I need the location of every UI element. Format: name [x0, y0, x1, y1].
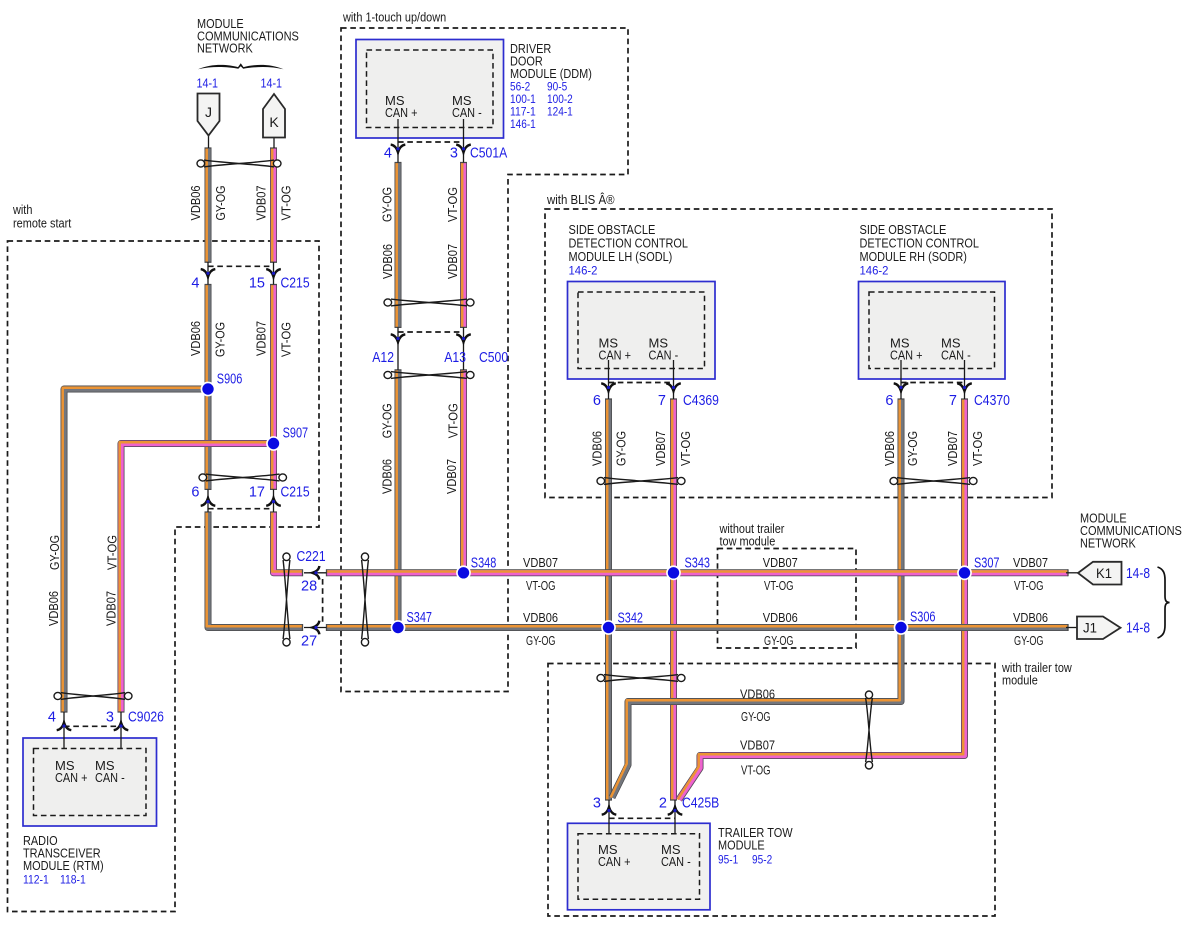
svg-text:146-2: 146-2	[860, 264, 889, 278]
twisted pair trailer runs	[865, 691, 872, 769]
svg-text:VDB06: VDB06	[523, 610, 558, 625]
module TTM box	[568, 823, 711, 910]
twisted pair above C215 6/17	[199, 474, 287, 481]
twisted pair SODR	[890, 477, 977, 484]
wire VDB07 VT-OG from SODR pin 7 to S307	[963, 399, 964, 573]
svg-text:VDB06: VDB06	[882, 431, 897, 466]
svg-text:6: 6	[885, 393, 893, 409]
svg-text:J: J	[205, 104, 212, 120]
twisted pair DDM upper	[384, 299, 474, 306]
option box: with remote start	[8, 241, 320, 912]
svg-text:95-1: 95-1	[718, 853, 738, 867]
inline connector C500 pins A12/A13	[398, 327, 464, 370]
svg-text:VDB07: VDB07	[763, 555, 798, 570]
wire end caps	[61, 148, 1069, 800]
svg-text:3: 3	[450, 146, 458, 162]
svg-text:C215: C215	[281, 275, 310, 291]
svg-text:17: 17	[249, 485, 265, 501]
option box: with BLIS	[545, 209, 1052, 498]
connector J1	[1066, 627, 1080, 629]
svg-text:VDB06: VDB06	[188, 321, 203, 356]
svg-text:124-1: 124-1	[547, 105, 573, 119]
inline connector C501A pins 4/3	[398, 119, 464, 163]
inline connector C425B pins 3/2	[609, 800, 675, 834]
wire VDB06 GY-OG branch S906 to RTM pin 4	[63, 388, 208, 712]
svg-text:A12: A12	[372, 350, 394, 366]
svg-text:S343: S343	[685, 556, 711, 572]
option box: with 1-touch up/down	[341, 28, 628, 692]
svg-text:VDB07: VDB07	[945, 431, 960, 466]
svg-text:VT-OG: VT-OG	[678, 431, 693, 466]
wire VDB06 GY-OG from SODR pin 6 to S306	[900, 399, 901, 628]
svg-text:VDB06: VDB06	[1013, 610, 1048, 625]
svg-text:VT-OG: VT-OG	[445, 187, 460, 222]
svg-text:VT-OG: VT-OG	[526, 578, 556, 593]
splice S307	[957, 556, 999, 581]
svg-text:VDB07: VDB07	[653, 431, 668, 466]
connector J	[208, 136, 210, 149]
svg-text:28: 28	[301, 578, 317, 594]
svg-text:S347: S347	[407, 610, 433, 626]
svg-text:J1: J1	[1083, 620, 1097, 636]
svg-text:MODULE LH (SODL): MODULE LH (SODL)	[569, 249, 673, 264]
svg-text:tow module: tow module	[720, 534, 776, 549]
svg-text:VDB06: VDB06	[740, 687, 775, 702]
svg-text:GY-OG: GY-OG	[741, 709, 771, 724]
svg-text:VT-OG: VT-OG	[104, 535, 119, 570]
inline connector C215 pins 6/17	[208, 489, 274, 512]
svg-text:VDB07: VDB07	[740, 738, 775, 753]
svg-text:MODULE (RTM): MODULE (RTM)	[23, 858, 104, 873]
svg-text:with 1-touch up/down: with 1-touch up/down	[342, 10, 446, 25]
twisted pair above TTM	[597, 674, 685, 681]
bus wire VDB07 VT-OG	[327, 572, 1069, 573]
svg-text:3: 3	[593, 796, 601, 812]
svg-text:S906: S906	[217, 372, 243, 388]
svg-text:CAN -: CAN -	[95, 770, 125, 785]
bus wire VDB06 GY-OG	[327, 626, 1069, 627]
option box: without trailer tow module	[718, 549, 857, 649]
module SODL box	[568, 282, 716, 380]
svg-text:K: K	[269, 114, 279, 130]
option box: with trailer tow module	[548, 664, 995, 917]
wire VDB06 GY-OG from SODL pin 6 through S342 to TTM pin 3	[607, 399, 608, 800]
svg-text:S348: S348	[471, 556, 497, 572]
svg-text:C4370: C4370	[974, 393, 1010, 409]
svg-text:7: 7	[949, 393, 957, 409]
svg-text:VT-OG: VT-OG	[1014, 578, 1044, 593]
svg-text:remote start: remote start	[13, 216, 72, 231]
brace over J/K	[198, 63, 284, 69]
svg-text:with BLIS Â®: with BLIS Â®	[546, 192, 615, 207]
svg-text:C215: C215	[281, 485, 310, 501]
svg-text:CAN -: CAN -	[941, 348, 971, 363]
SODL pins 6/7 connector C4369	[609, 360, 674, 399]
svg-text:GY-OG: GY-OG	[213, 186, 228, 221]
svg-text:GY-OG: GY-OG	[380, 403, 395, 438]
svg-text:S342: S342	[618, 611, 644, 627]
svg-text:15: 15	[249, 275, 265, 291]
twisted pair below J/K	[197, 160, 281, 167]
twisted pair SODL	[597, 477, 685, 484]
svg-text:14-8: 14-8	[1126, 566, 1150, 582]
svg-text:CAN -: CAN -	[452, 105, 482, 120]
svg-text:VDB07: VDB07	[444, 459, 459, 494]
svg-text:3: 3	[106, 710, 114, 726]
SODR pins 6/7 connector C4370	[901, 360, 965, 399]
svg-text:CAN +: CAN +	[890, 348, 923, 363]
svg-text:2: 2	[659, 796, 667, 812]
svg-text:VDB07: VDB07	[445, 244, 460, 279]
svg-text:14-1: 14-1	[261, 76, 283, 91]
svg-text:NETWORK: NETWORK	[1080, 535, 1136, 550]
svg-text:CAN +: CAN +	[385, 105, 418, 120]
svg-text:C501A: C501A	[470, 146, 507, 162]
svg-text:VDB07: VDB07	[523, 555, 558, 570]
connector K1	[1066, 572, 1080, 574]
svg-text:C500: C500	[479, 350, 508, 366]
wire VDB06 GY-OG trailer run S306 to TTM pin 3	[611, 628, 901, 798]
splice S343	[666, 556, 710, 581]
wire VDB07 VT-OG from SODL pin 7 through S343 to TTM pin 2	[672, 399, 673, 800]
svg-text:GY-OG: GY-OG	[613, 431, 628, 466]
svg-text:14-1: 14-1	[197, 76, 219, 91]
svg-text:A13: A13	[444, 350, 466, 366]
svg-text:VT-OG: VT-OG	[279, 186, 294, 221]
svg-text:CAN +: CAN +	[55, 770, 88, 785]
twisted pair C221 right	[361, 553, 368, 646]
svg-text:C4369: C4369	[683, 393, 719, 409]
splice S306	[894, 610, 936, 635]
svg-text:CAN -: CAN -	[661, 854, 691, 869]
twisted pair above RTM	[54, 692, 132, 699]
wire VDB07 VT-OG trailer run S307 to TTM pin 2	[678, 573, 965, 800]
inline connector C215 pins 4/15	[208, 262, 274, 285]
svg-text:S907: S907	[283, 426, 309, 442]
svg-text:VDB06: VDB06	[380, 244, 395, 279]
module RTM box	[23, 738, 157, 826]
svg-text:NETWORK: NETWORK	[197, 41, 253, 56]
svg-text:27: 27	[301, 634, 317, 650]
svg-text:VDB07: VDB07	[253, 186, 268, 221]
svg-text:4: 4	[191, 275, 199, 291]
svg-text:MODULE: MODULE	[718, 838, 765, 853]
svg-text:GY-OG: GY-OG	[764, 633, 794, 648]
svg-text:GY-OG: GY-OG	[213, 322, 228, 357]
splice S347	[391, 610, 432, 635]
svg-text:VDB07: VDB07	[104, 591, 119, 626]
wire VDB07 VT-OG branch S907 to RTM pin 3	[120, 442, 274, 712]
inline connector C221 pins 28/27	[304, 573, 327, 628]
svg-text:MODULE RH (SODR): MODULE RH (SODR)	[860, 249, 967, 264]
svg-text:14-8: 14-8	[1126, 621, 1150, 637]
splice S907	[266, 426, 308, 451]
wire VDB07 VT-OG from K to C221 pin 28	[272, 148, 302, 573]
inline connector C9026 pins 4/3	[64, 712, 121, 749]
svg-text:VDB06: VDB06	[590, 431, 605, 466]
twisted pair C221 left	[283, 553, 290, 646]
svg-text:VDB06: VDB06	[46, 591, 61, 626]
svg-text:VT-OG: VT-OG	[741, 763, 771, 778]
svg-text:C9026: C9026	[128, 710, 164, 726]
svg-text:GY-OG: GY-OG	[47, 535, 62, 570]
svg-text:6: 6	[191, 485, 199, 501]
svg-text:6: 6	[593, 393, 601, 409]
splice S348	[456, 556, 496, 581]
svg-text:GY-OG: GY-OG	[1014, 633, 1044, 648]
svg-text:C425B: C425B	[682, 796, 719, 812]
wire VDB06 GY-OG from DDM pin 4 to S347	[397, 163, 398, 628]
svg-text:CAN +: CAN +	[599, 348, 632, 363]
connector K	[273, 138, 275, 149]
svg-text:7: 7	[658, 393, 666, 409]
module SODR box	[859, 282, 1006, 380]
svg-text:VT-OG: VT-OG	[970, 431, 985, 466]
svg-text:VT-OG: VT-OG	[445, 403, 460, 438]
svg-text:112-1: 112-1	[23, 873, 49, 887]
wire VDB07 VT-OG from DDM pin 3 to S348	[462, 163, 463, 573]
svg-text:VT-OG: VT-OG	[764, 578, 794, 593]
splice S906	[201, 372, 243, 397]
svg-text:95-2: 95-2	[752, 853, 772, 867]
svg-text:4: 4	[384, 146, 392, 162]
svg-text:VDB06: VDB06	[763, 610, 798, 625]
svg-text:146-2: 146-2	[569, 264, 598, 278]
svg-text:118-1: 118-1	[60, 873, 86, 887]
svg-text:S306: S306	[910, 610, 936, 626]
svg-text:module: module	[1002, 673, 1038, 688]
svg-text:C221: C221	[297, 549, 326, 565]
svg-text:146-1: 146-1	[510, 117, 536, 131]
wire VDB06 GY-OG from J to C221 pin 27	[207, 148, 303, 628]
svg-text:VDB06: VDB06	[380, 459, 395, 494]
svg-text:VDB07: VDB07	[1013, 555, 1048, 570]
twisted pair DDM lower	[384, 371, 474, 378]
module DDM box	[356, 40, 504, 139]
svg-text:4: 4	[48, 710, 56, 726]
svg-text:VDB06: VDB06	[188, 186, 203, 221]
brace right of K1/J1	[1158, 567, 1170, 638]
svg-text:CAN +: CAN +	[598, 854, 631, 869]
svg-text:K1: K1	[1096, 565, 1112, 581]
svg-text:GY-OG: GY-OG	[379, 187, 394, 222]
splice S342	[601, 611, 643, 635]
svg-text:S307: S307	[974, 556, 1000, 572]
svg-text:GY-OG: GY-OG	[905, 431, 920, 466]
svg-text:VDB07: VDB07	[253, 321, 268, 356]
svg-text:GY-OG: GY-OG	[526, 633, 556, 648]
svg-text:VT-OG: VT-OG	[279, 322, 294, 357]
